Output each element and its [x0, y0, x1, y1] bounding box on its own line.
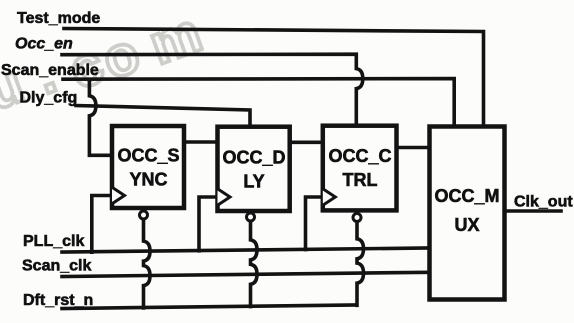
- svg-text:TRL: TRL: [343, 170, 378, 190]
- wire PLL_clk: [62, 248, 428, 252]
- svg-text:LY: LY: [243, 172, 264, 192]
- clock notch OCC_SYNC: [112, 187, 125, 204]
- wire Test_mode: [64, 29, 484, 127]
- reset bubble OCC_SYNC: [140, 211, 148, 219]
- svg-text:OCC_C: OCC_C: [328, 146, 391, 166]
- svg-text:Clk_out: Clk_out: [514, 194, 573, 211]
- svg-text:UX: UX: [454, 215, 479, 235]
- svg-text:Scan_enable: Scan_enable: [1, 62, 99, 79]
- reset bubble OCC_DLY: [247, 213, 255, 221]
- svg-text:Scan_clk: Scan_clk: [22, 258, 91, 275]
- wire OCC_CTRL reset to Dft_rst_n: [357, 222, 364, 306]
- block OCC_CTRL: [323, 126, 397, 211]
- block OCC_DLY: [218, 127, 290, 211]
- svg-text:Occ_en: Occ_en: [15, 36, 73, 53]
- clock notch OCC_DLY: [218, 189, 231, 206]
- wire OCC_DLY reset to Dft_rst_n: [251, 221, 258, 307]
- svg-text:OCC_M: OCC_M: [434, 186, 499, 206]
- wire OCC_DLY to OCC_CTRL: [290, 141, 323, 145]
- wire OCC_SYNC to OCC_DLY: [184, 140, 218, 144]
- wire Dft_rst_n: [62, 305, 357, 309]
- svg-text:Test_mode: Test_mode: [17, 10, 100, 27]
- svg-text:PLL_clk: PLL_clk: [23, 233, 84, 250]
- wire PLL_clk to OCC_SYNC clock pin: [92, 196, 112, 253]
- clock notch OCC_CTRL: [323, 189, 336, 206]
- wire Scan_enable: [63, 79, 454, 127]
- wire PLL_clk to OCC_DLY clock pin: [199, 197, 218, 251]
- block OCC_SYNC: [112, 126, 184, 208]
- wire Clk_out: [503, 209, 561, 213]
- wire Dly_cfg: [76, 106, 250, 127]
- wire Occ_en: [62, 54, 363, 126]
- reset bubble OCC_CTRL: [353, 214, 361, 222]
- svg-text:OCC_D: OCC_D: [222, 148, 285, 168]
- wire OCC_CTRL to OCC_MUX: [397, 146, 429, 150]
- block OCC_MUX: [430, 127, 505, 300]
- wire Scan_clk: [62, 272, 428, 276]
- wire OCC_SYNC reset to Dft_rst_n: [144, 219, 151, 308]
- svg-text:YNC: YNC: [129, 170, 167, 190]
- svg-text:OCC_S: OCC_S: [117, 146, 179, 166]
- wire PLL_clk to OCC_CTRL clock pin: [306, 197, 323, 250]
- svg-text:Dly_cfg: Dly_cfg: [20, 90, 78, 107]
- svg-text:Dft_rst_n: Dft_rst_n: [23, 292, 93, 309]
- wire Scan_enable branch to OCC_SYNC: [89, 81, 112, 156]
